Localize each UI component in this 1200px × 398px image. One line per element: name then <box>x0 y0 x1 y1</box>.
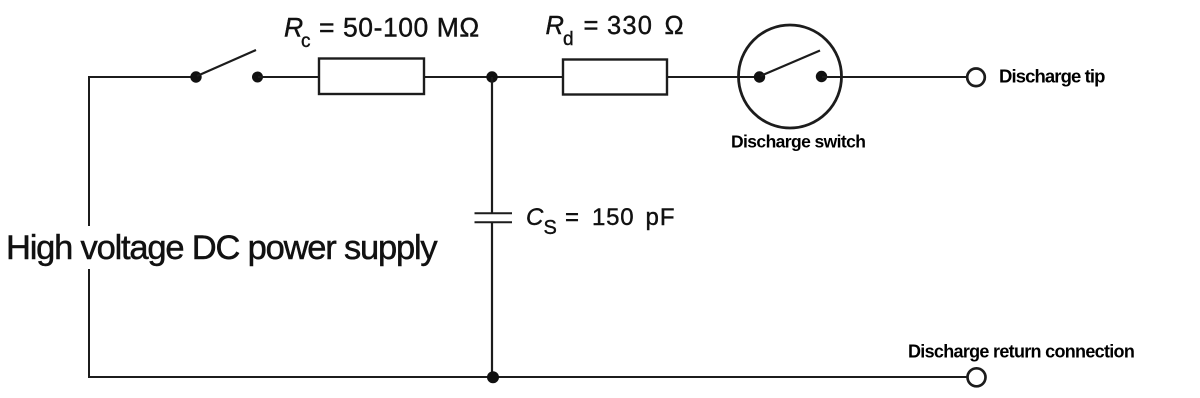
svg-text:=: = <box>565 204 579 231</box>
resistor Rd body <box>563 60 667 95</box>
svg-text:=: = <box>584 12 599 40</box>
svg-text:50-100 MΩ: 50-100 MΩ <box>343 13 480 43</box>
charge switch blade <box>197 50 256 76</box>
svg-text:=: = <box>319 13 334 43</box>
svg-text:C: C <box>526 204 544 231</box>
svg-text:Discharge switch: Discharge switch <box>731 132 865 152</box>
wire Rd to discharge switch <box>667 76 760 78</box>
capacitor Cs bottom plate <box>475 221 513 223</box>
white gap behind power supply label <box>0 226 448 269</box>
svg-text:S: S <box>544 217 557 239</box>
resistor Rc body <box>319 59 424 95</box>
discharge tip terminal <box>967 69 985 87</box>
wire switch to resistor Rc <box>258 76 319 78</box>
node junction top <box>486 71 497 82</box>
discharge return terminal <box>968 368 986 386</box>
wire capacitor to bottom <box>491 222 493 377</box>
node junction bottom <box>487 371 499 383</box>
svg-text:Discharge tip: Discharge tip <box>999 66 1105 87</box>
charge switch contact dot left <box>190 71 201 82</box>
wire bottom horizontal <box>88 376 967 378</box>
svg-text:c: c <box>301 31 311 52</box>
svg-text:pF: pF <box>646 204 676 231</box>
discharge switch circle <box>739 25 842 128</box>
capacitor Cs top plate <box>475 212 513 214</box>
wire top-left to charge switch <box>88 76 196 78</box>
svg-text:Ω: Ω <box>665 12 684 40</box>
svg-text:150: 150 <box>592 204 634 231</box>
svg-text:d: d <box>563 29 574 50</box>
discharge switch contact dot right <box>816 71 827 82</box>
discharge switch blade <box>761 51 821 77</box>
discharge switch contact dot left <box>754 71 765 82</box>
wire node to capacitor <box>491 77 493 213</box>
wire Rc to node <box>424 76 563 78</box>
svg-text:Discharge return connection: Discharge return connection <box>908 342 1134 362</box>
svg-text:High voltage DC power supply: High voltage DC power supply <box>6 229 438 267</box>
svg-text:330: 330 <box>607 12 653 40</box>
wire left vertical <box>88 77 90 377</box>
wire discharge switch to tip <box>822 76 966 78</box>
svg-text:R: R <box>546 12 564 40</box>
charge switch contact dot right <box>252 72 263 83</box>
